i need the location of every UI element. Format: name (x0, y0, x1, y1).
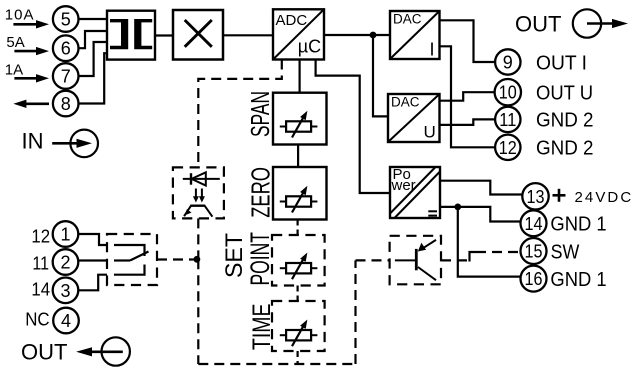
dashed wire relay to junction (157, 258, 197, 260)
dashed line optocoupler to junction (197, 218, 199, 259)
terminal 5 (53, 6, 79, 32)
DAC U block (388, 94, 440, 142)
wire multiplier to ADC (223, 34, 273, 36)
svg-text:10A: 10A (5, 7, 34, 24)
relay changeover contact K1 (114, 245, 149, 275)
power supply block (390, 166, 440, 218)
svg-text:15: 15 (525, 242, 543, 262)
transformer left winding (110, 19, 128, 49)
svg-text:I: I (430, 39, 435, 59)
dashed wire to transistor box (356, 259, 390, 261)
potentiometer ZERO (280, 186, 318, 213)
dashed wire SET POINT to TIME (297, 286, 299, 302)
terminal 3 (53, 278, 79, 304)
wire junction to terminal 16 (458, 207, 521, 277)
terminal 15 (521, 238, 547, 264)
terminal 8 (53, 91, 79, 117)
terminal 1 (53, 221, 79, 247)
svg-text:SW: SW (551, 241, 580, 263)
svg-text:3: 3 (60, 281, 70, 301)
wire terminal5 to transformer (79, 18, 108, 20)
dashed wire ZERO to SET POINT (297, 220, 299, 236)
wire terminal8 to transformer (79, 53, 108, 103)
svg-text:OUT I: OUT I (536, 52, 587, 74)
DAC I block (390, 11, 440, 59)
SW jog (470, 252, 477, 262)
transformer right winding (134, 19, 152, 49)
optocoupler phototransistor (184, 206, 212, 217)
terminal 6 (53, 35, 79, 61)
wire terminal6 to transformer (79, 31, 108, 48)
svg-text:ADC: ADC (276, 12, 308, 29)
ADC / uC converter block U1 (273, 9, 324, 59)
svg-text:POINT: POINT (245, 232, 275, 286)
plus sign 24VDC (553, 189, 566, 202)
potentiometer SPAN (280, 111, 318, 138)
dashed wire to terminal 15 (476, 251, 521, 253)
svg-text:µC: µC (298, 37, 321, 57)
svg-text:2: 2 (60, 253, 70, 273)
terminal 11 (495, 107, 520, 132)
potentiometer SET POINT (280, 253, 318, 280)
wire ADC to DAC I (324, 34, 390, 36)
svg-text:DAC: DAC (393, 12, 422, 27)
svg-text:8: 8 (61, 94, 71, 114)
node junction dashed net (194, 256, 201, 263)
transistor Q1 (395, 240, 436, 280)
svg-text:NC: NC (25, 308, 49, 329)
svg-text:9: 9 (503, 53, 513, 73)
terminal 10 (495, 79, 521, 105)
optocoupler dashed box (173, 167, 224, 218)
optocoupler light arrows (193, 189, 205, 203)
svg-text:SPAN: SPAN (247, 91, 275, 137)
optocoupler LED diode (191, 172, 206, 185)
svg-text:GND 1: GND 1 (550, 269, 606, 291)
svg-text:1: 1 (60, 225, 70, 245)
multiplier box (173, 10, 223, 60)
terminal 12 (495, 135, 520, 160)
terminal 4 (53, 308, 79, 334)
node junction uC output (370, 32, 377, 39)
transistor dashed box (390, 236, 441, 284)
svg-text:7: 7 (61, 67, 71, 87)
svg-text:11: 11 (499, 110, 516, 130)
transformer box (107, 11, 155, 60)
svg-text:IN: IN (22, 129, 44, 154)
svg-text:14: 14 (525, 214, 543, 234)
dashed wire transistor to SW (441, 259, 470, 261)
wire SPAN to ZERO (297, 145, 299, 168)
svg-text:10: 10 (499, 83, 517, 103)
svg-text:13: 13 (527, 187, 545, 207)
TIME dashed block (272, 301, 325, 351)
dashed right riser (354, 260, 356, 364)
wire power to terminal 14 (440, 207, 521, 222)
IN indicator icon (52, 130, 98, 158)
svg-text:DAC: DAC (391, 95, 420, 110)
dashed setup line from ADC (198, 60, 281, 168)
OUT indicator icon bottom left (76, 337, 130, 365)
input arrow 10A (13, 20, 49, 28)
wire terminal7 to transformer (79, 42, 108, 76)
wire DAC I to terminal 9 (440, 20, 496, 62)
svg-text:6: 6 (61, 39, 71, 59)
wire power to terminal 13 (440, 181, 522, 195)
svg-text:5: 5 (61, 10, 71, 30)
svg-text:4: 4 (61, 311, 71, 331)
output arrow terminal 8 (13, 100, 49, 108)
svg-text:GND 2: GND 2 (536, 138, 594, 160)
wire uC to power supply (316, 60, 390, 194)
svg-text:12: 12 (499, 138, 517, 158)
terminal 16 (521, 266, 547, 292)
svg-text:OUT: OUT (515, 12, 561, 37)
wire terminal1 to relay NC contact (78, 234, 107, 245)
svg-text:16: 16 (525, 269, 543, 289)
SPAN block (273, 93, 327, 145)
svg-text:GND 2: GND 2 (536, 110, 594, 132)
terminal 2 (53, 249, 79, 275)
svg-text:OUT U: OUT U (536, 83, 593, 105)
dashed stub TIME to bottom rail (297, 351, 299, 364)
svg-text:12: 12 (31, 226, 50, 247)
input arrow 5A (14, 47, 49, 55)
SET POINT dashed block (272, 235, 325, 286)
svg-text:wer: wer (391, 177, 416, 194)
wire terminal3 to relay NO contact (78, 275, 107, 291)
node junction GND1 (454, 204, 461, 211)
ZERO block (273, 167, 327, 220)
svg-text:5A: 5A (6, 34, 24, 51)
svg-text:11: 11 (32, 253, 49, 274)
terminal 14 (521, 210, 547, 236)
relay dashed box (107, 234, 157, 285)
wire junction to DAC U (373, 35, 388, 116)
input arrow 1A (14, 74, 49, 82)
wire uC to SPAN (299, 60, 301, 93)
dashed bottom rail (198, 363, 355, 365)
terminal 9 (495, 49, 520, 74)
svg-text:SET: SET (221, 233, 248, 278)
wire terminal2 to relay common (78, 259, 107, 261)
dashed line junction down to bottom rail (197, 259, 199, 364)
svg-text:1A: 1A (5, 61, 23, 78)
optocoupler LED wire (183, 178, 220, 180)
wire DAC I to terminal 12 (440, 46, 496, 147)
OUT indicator icon top right (573, 9, 628, 37)
svg-text:14: 14 (31, 279, 50, 300)
wire DAC U to terminal 10 (440, 92, 496, 101)
svg-text:U: U (424, 123, 436, 142)
wire DAC U to terminal 11 (440, 119, 496, 125)
multiplier X symbol (185, 20, 212, 47)
svg-text:GND 1: GND 1 (550, 214, 606, 236)
svg-text:ZERO: ZERO (246, 167, 276, 218)
svg-text:TIME: TIME (248, 304, 276, 350)
svg-text:OUT: OUT (21, 340, 67, 365)
potentiometer TIME (280, 320, 318, 347)
wire transformer to multiplier (155, 34, 173, 36)
terminal 7 (53, 63, 79, 89)
terminal 13 (522, 183, 548, 209)
